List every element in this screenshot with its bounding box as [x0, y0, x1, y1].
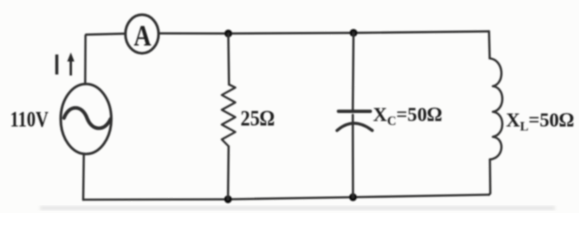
resistor R 25ohm top lead	[227, 34, 230, 85]
resistor R 25ohm bottom lead	[227, 146, 230, 199]
junction: node e (resistor bottom)	[224, 195, 232, 203]
svg-text:A: A	[134, 19, 152, 52]
junction: node d (capacitor bottom)	[349, 193, 357, 201]
inductor XL	[490, 58, 503, 159]
scan shadow band at bottom	[40, 207, 555, 210]
capacitor XC top lead	[352, 33, 355, 110]
svg-text:XL=50Ω: XL=50Ω	[506, 110, 574, 134]
sine symbol inside source	[64, 108, 111, 128]
wire: bottom bus	[83, 195, 489, 200]
wire: top-left corner to ammeter	[86, 34, 126, 36]
wire: bottom-left corner up to source	[82, 154, 85, 200]
resistor R 25ohm zigzag	[222, 85, 236, 147]
capacitor XC bottom lead	[352, 115, 354, 197]
svg-text:110V: 110V	[10, 106, 49, 131]
svg-text:XC=50Ω: XC=50Ω	[373, 104, 442, 128]
svg-text:25Ω: 25Ω	[241, 105, 275, 130]
ammeter A1	[125, 15, 158, 54]
wire: right vertical to inductor	[488, 31, 491, 58]
capacitor XC top plate	[339, 110, 371, 113]
junction: node b (capacitor top)	[350, 29, 358, 37]
label: current I with up arrow	[55, 55, 58, 75]
junction: node a (resistor top)	[224, 30, 232, 38]
ac source V1	[61, 84, 112, 154]
wire: source top lead	[84, 36, 87, 84]
wire: ammeter to top-right corner (through junctions)	[159, 31, 489, 33]
wire: inductor bottom to bottom-right corner	[489, 160, 490, 195]
capacitor XC bottom plate (curved)	[337, 123, 372, 130]
